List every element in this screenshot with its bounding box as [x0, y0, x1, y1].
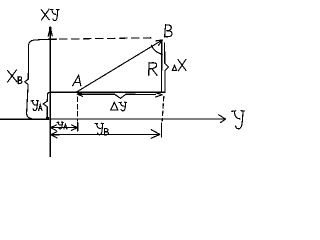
y_A dimension left arrowhead — [51, 125, 57, 131]
dashed drop line from triangle corner to x-axis — [162, 97, 164, 122]
label y_B (bottom) : subscript B — [105, 128, 109, 135]
y_B dimension line below axis — [51, 133, 160, 135]
X_B vertical boundary line with brace kink — [25, 45, 33, 119]
axis label y (right end) — [232, 111, 245, 129]
label y_B (bottom) : y — [95, 123, 104, 134]
label DeltaX : Delta — [172, 65, 176, 70]
corner from A-line turning down left of axis — [47, 92, 50, 95]
label y_A (left of axis) : subscript A — [39, 105, 42, 111]
horizontal projection line at A height — [50, 91, 165, 93]
triangle vertical side from B down — [161, 41, 163, 93]
horizontal axis line y — [0, 118, 225, 120]
left arrowhead of Delta-y dimension — [77, 92, 83, 96]
y_B dimension right arrowhead — [151, 130, 160, 139]
label DeltaX : X — [178, 59, 186, 71]
label X_B : subscript B — [18, 77, 22, 84]
vertical axis arrowhead — [49, 28, 51, 35]
y_A vertical drop left of axis with brace kink — [43, 95, 47, 119]
label Delta-y : Delta — [111, 102, 118, 110]
dashed drop line from A to x-axis — [77, 97, 79, 121]
arrowhead at B end of R — [156, 40, 163, 45]
right arrowhead of Delta-y dimension — [155, 93, 162, 97]
label y_A (bottom) : y — [57, 122, 63, 129]
dashed horizontal line at B height — [60, 38, 153, 39]
y_A dimension right arrowhead — [72, 125, 78, 130]
vertical axis line X — [49, 27, 51, 157]
label X_B : X — [7, 70, 16, 82]
label y_A (bottom) : subscript A — [64, 124, 67, 129]
label y_A (left of axis) : y — [31, 101, 38, 111]
y_B dimension left arrowhead — [51, 132, 57, 138]
Delta-y dimension line with center kink — [79, 94, 156, 98]
point A label — [73, 75, 81, 85]
X_B projection: top horizontal solid segment — [29, 39, 57, 45]
tick below axis at y_B — [160, 123, 162, 137]
axis label Xy (top) : X — [41, 9, 49, 20]
axis label Xy (top) : y — [50, 9, 59, 20]
y_A dimension line below axis — [51, 127, 78, 129]
tick below axis at y_A — [77, 123, 79, 132]
angle arc near B — [151, 45, 162, 54]
DeltaX dimension line with brace kink — [165, 43, 169, 93]
horizontal axis arrowhead — [219, 115, 226, 123]
label Delta-y : y — [119, 102, 127, 111]
label B — [165, 24, 172, 37]
origin square dot — [46, 117, 49, 120]
label R — [149, 63, 157, 76]
vector R hypotenuse from A to B — [77, 40, 162, 91]
